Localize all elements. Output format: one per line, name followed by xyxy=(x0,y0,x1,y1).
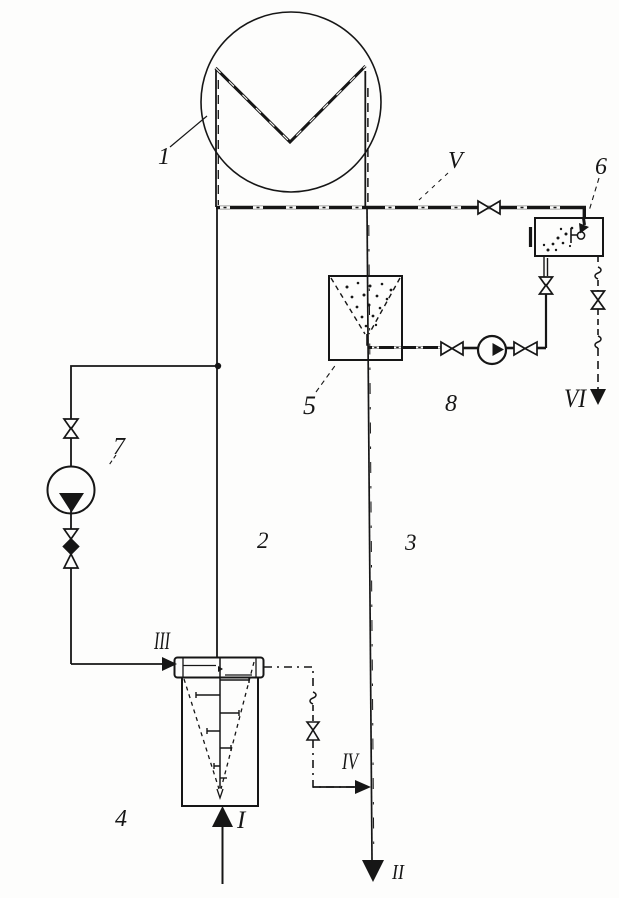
pump 7 xyxy=(48,467,95,514)
side ticks xyxy=(220,677,249,683)
svg-text:8: 8 xyxy=(445,391,457,417)
valve on pipe V xyxy=(478,201,500,214)
label 7 with leader xyxy=(109,434,126,465)
svg-text:7: 7 xyxy=(113,434,126,460)
svg-text:1: 1 xyxy=(158,144,170,170)
heat exchanger 1 (circle shell) xyxy=(201,12,381,192)
junction node on line 2 xyxy=(215,363,221,369)
valve on drain line VI xyxy=(592,291,605,309)
center sparge pipe xyxy=(219,658,221,788)
wire xyxy=(70,568,72,664)
svg-text:II: II xyxy=(391,860,405,884)
svg-text:III: III xyxy=(153,628,171,655)
control valve below pump 7 xyxy=(64,529,79,568)
valve left of pump 8 xyxy=(441,342,463,355)
label 5 with leader xyxy=(303,363,337,420)
label V with leader xyxy=(419,148,465,200)
svg-text:V: V xyxy=(448,148,465,174)
wire xyxy=(70,510,72,529)
label 1 with leader xyxy=(158,116,207,170)
valve on overflow line xyxy=(307,722,319,740)
valve below scrubber 6 xyxy=(540,277,553,294)
washer 5 (box with spray funnel) xyxy=(329,276,402,360)
dashed cone inside tank xyxy=(184,679,219,789)
label 6 with leader xyxy=(589,154,607,211)
outlet arrow II at bottom of line 3 xyxy=(362,860,384,882)
wire xyxy=(70,438,72,467)
wire: line 2 (left downcomer from exchanger to tank 4) xyxy=(216,207,218,658)
small arrow into overflow xyxy=(218,666,223,672)
svg-text:4: 4 xyxy=(115,806,127,832)
valve above pump 7 xyxy=(64,419,78,438)
wire: horizontal pump suction/discharge line y=348 xyxy=(368,346,546,350)
svg-text:6: 6 xyxy=(595,154,607,180)
svg-text:2: 2 xyxy=(257,528,269,553)
overflow line IV from tank 4 xyxy=(264,667,371,794)
wire: pipe from scrubber 6 bottom to pump line xyxy=(544,256,548,348)
feed arrow I below tank 4 xyxy=(212,806,233,884)
valve right of pump 8 xyxy=(514,342,537,355)
bracket on left side of 6 xyxy=(529,227,532,247)
svg-text:3: 3 xyxy=(404,530,417,555)
tank 4 (bubbler column) xyxy=(175,658,264,807)
line III into tank 4 with arrow xyxy=(71,657,177,671)
pipe V: top dash-dot vapour line xyxy=(216,206,586,219)
wire: branch from junction to pump 7 xyxy=(71,366,218,419)
small arrow at bottom of sparge pipe xyxy=(217,789,223,798)
pump 8 xyxy=(478,336,506,364)
coil M inside exchanger 1 xyxy=(216,66,368,207)
drain line VI from scrubber 6 xyxy=(590,256,606,405)
svg-text:VI: VI xyxy=(564,384,587,413)
inlet arrow inside 6 xyxy=(584,218,585,225)
spray dots inside 6 xyxy=(543,227,574,252)
svg-text:IV: IV xyxy=(341,749,360,774)
wire: line 3 (right downcomer to arrow II) xyxy=(367,207,374,860)
svg-text:5: 5 xyxy=(303,391,316,420)
scrubber 6 (box with spray) xyxy=(531,218,604,256)
